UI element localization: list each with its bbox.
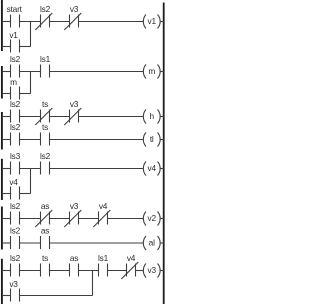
wire rung y=218.5: rail to ls2 bbox=[2, 218, 11, 220]
wire branch v3: contact to connector bbox=[20, 295, 93, 297]
coil v2 bbox=[143, 212, 160, 226]
contact ts (NO) bbox=[41, 253, 50, 277]
branch connector v3 joins rung bbox=[92, 271, 94, 296]
svg-text:ls2: ls2 bbox=[10, 253, 21, 263]
wire rung y=270.5: ls1 to v4 bbox=[108, 270, 127, 272]
svg-text:v4: v4 bbox=[127, 253, 136, 263]
wire rung y=218.5: ls2 to as bbox=[20, 218, 41, 220]
svg-text:v3: v3 bbox=[70, 201, 79, 211]
svg-text:ts: ts bbox=[42, 99, 48, 109]
contact ts (NO) bbox=[41, 122, 50, 146]
wire rung y=218.5: coil to right rail bbox=[160, 218, 164, 220]
wire rung y=21.5: start to ls2 bbox=[20, 21, 41, 23]
contact ls2 (NO) bbox=[10, 99, 21, 123]
contact ls3 (NO) bbox=[10, 151, 21, 175]
wire rung y=168.5: ls2 to coil bbox=[50, 168, 144, 170]
svg-text:v4: v4 bbox=[148, 163, 157, 173]
contact as (NC) bbox=[35, 201, 52, 227]
coil m bbox=[143, 65, 160, 79]
svg-text:m: m bbox=[10, 77, 17, 87]
svg-text:v2: v2 bbox=[148, 213, 157, 223]
wire branch v1: contact to connector bbox=[20, 46, 31, 48]
wire rung y=139.5: ts to coil bbox=[50, 139, 144, 141]
svg-text:v1: v1 bbox=[148, 16, 157, 26]
contact ls2 (NO) bbox=[10, 225, 21, 249]
contact ls2 (NO) bbox=[10, 122, 21, 146]
wire branch v1: rail to contact bbox=[2, 46, 11, 48]
contact v4 (NO) bbox=[9, 177, 19, 200]
contact ls2 (NC) bbox=[35, 4, 52, 30]
contact v4 (NC) bbox=[93, 201, 110, 227]
contact ls2 (NO) bbox=[10, 201, 21, 225]
left power rail segment 6 bbox=[1, 259, 3, 304]
wire rung y=243.0: rail to ls2 bbox=[2, 242, 11, 244]
left power rail segment 1 bbox=[1, 0, 3, 51]
wire rung y=243.0: as to coil bbox=[50, 242, 144, 244]
contact ls2 (NO) bbox=[10, 54, 21, 78]
wire rung y=21.5: coil to right rail bbox=[160, 21, 164, 23]
wire rung y=270.5: ls2 to ts bbox=[20, 270, 41, 272]
svg-text:v1: v1 bbox=[9, 30, 18, 40]
svg-text:ls2: ls2 bbox=[10, 201, 21, 211]
svg-text:ls2: ls2 bbox=[10, 122, 21, 132]
wire rung y=139.5: coil to right rail bbox=[160, 139, 164, 141]
contact v4 (NC) bbox=[121, 253, 138, 279]
wire rung y=270.5: v4 to coil bbox=[136, 270, 144, 272]
wire rung y=21.5: rail to start bbox=[2, 21, 11, 23]
svg-text:v3: v3 bbox=[9, 279, 18, 289]
svg-text:start: start bbox=[7, 4, 23, 14]
contact start (NO) bbox=[7, 4, 23, 28]
coil h bbox=[143, 110, 160, 124]
wire rung y=116.5: ts to v3 bbox=[50, 116, 70, 118]
wire rung y=218.5: v3 to v4 bbox=[79, 218, 99, 220]
svg-text:ts: ts bbox=[42, 253, 48, 263]
left power rail segment 2 bbox=[1, 66, 3, 99]
contact ls1 (NO) bbox=[40, 54, 51, 78]
contact v1 (NO) bbox=[9, 30, 19, 53]
contact ls2 (NO) bbox=[10, 253, 21, 277]
right power rail bbox=[163, 3, 165, 304]
svg-text:v3: v3 bbox=[148, 265, 157, 275]
svg-text:as: as bbox=[41, 225, 49, 235]
wire rung y=71.5: ls1 to coil bbox=[50, 71, 144, 73]
branch connector v1 joins rung bbox=[30, 22, 32, 47]
contact ls2 (NO) bbox=[40, 151, 51, 175]
wire rung y=116.5: ls2 to ts bbox=[20, 116, 41, 118]
left power rail segment 4 bbox=[1, 159, 3, 200]
wire rung y=116.5: rail to ls2 bbox=[2, 116, 11, 118]
left power rail segment 5 bbox=[1, 207, 3, 250]
svg-text:ls1: ls1 bbox=[98, 253, 109, 263]
branch connector v4 joins rung bbox=[30, 169, 32, 194]
svg-text:ls2: ls2 bbox=[10, 99, 21, 109]
svg-text:m: m bbox=[148, 66, 155, 76]
wire rung y=71.5: ls2 to ls1 bbox=[20, 71, 41, 73]
coil tl bbox=[143, 133, 160, 147]
svg-text:ls2: ls2 bbox=[40, 151, 51, 161]
wire rung y=168.5: coil to right rail bbox=[160, 168, 164, 170]
svg-text:ls2: ls2 bbox=[10, 225, 21, 235]
wire rung y=270.5: ts to as bbox=[50, 270, 70, 272]
wire branch v4: contact to connector bbox=[20, 193, 31, 195]
wire rung y=218.5: v4 to coil bbox=[108, 218, 144, 220]
svg-text:v3: v3 bbox=[70, 99, 79, 109]
wire rung y=270.5: rail to ls2 bbox=[2, 270, 11, 272]
wire rung y=243.0: coil to right rail bbox=[160, 242, 164, 244]
svg-text:as: as bbox=[70, 253, 78, 263]
contact as (NO) bbox=[41, 225, 50, 249]
contact as (NO) bbox=[70, 253, 79, 277]
coil al bbox=[143, 236, 160, 250]
contact v3 (NO) bbox=[9, 279, 19, 302]
wire rung y=270.5: as to ls1 bbox=[79, 270, 99, 272]
contact v3 (NC) bbox=[64, 4, 81, 30]
wire rung y=168.5: ls3 to ls2 bbox=[20, 168, 41, 170]
wire rung y=116.5: coil to right rail bbox=[160, 116, 164, 118]
contact ts (NC) bbox=[35, 99, 52, 125]
wire rung y=168.5: rail to ls3 bbox=[2, 168, 11, 170]
coil v4 bbox=[143, 162, 160, 176]
coil v3 bbox=[143, 264, 160, 278]
wire rung y=218.5: as to v3 bbox=[50, 218, 70, 220]
left power rail segment 3 bbox=[1, 112, 3, 150]
branch connector m joins rung bbox=[30, 72, 32, 94]
contact v3 (NC) bbox=[64, 99, 81, 125]
wire branch m: contact to connector bbox=[20, 93, 31, 95]
contact m (NO) bbox=[10, 77, 19, 100]
svg-text:as: as bbox=[41, 201, 49, 211]
wire rung y=71.5: coil to right rail bbox=[160, 71, 164, 73]
svg-text:v4: v4 bbox=[9, 177, 18, 187]
svg-text:al: al bbox=[149, 238, 155, 248]
wire rung y=21.5: ls2 to v3 bbox=[50, 21, 70, 23]
wire rung y=116.5: v3 to coil bbox=[79, 116, 144, 118]
svg-text:v3: v3 bbox=[70, 4, 79, 14]
wire branch v4: rail to contact bbox=[2, 193, 11, 195]
svg-text:ls2: ls2 bbox=[40, 4, 51, 14]
svg-text:ts: ts bbox=[42, 122, 48, 132]
svg-text:v4: v4 bbox=[99, 201, 108, 211]
svg-text:ls3: ls3 bbox=[10, 151, 21, 161]
coil v1 bbox=[143, 15, 160, 29]
wire branch m: rail to contact bbox=[2, 93, 11, 95]
svg-text:tl: tl bbox=[150, 134, 154, 144]
wire branch v3: rail to contact bbox=[2, 295, 11, 297]
contact ls1 (NO) bbox=[98, 253, 109, 277]
wire rung y=270.5: coil to right rail bbox=[160, 270, 164, 272]
wire rung y=139.5: ls2 to ts bbox=[20, 139, 41, 141]
svg-text:ls1: ls1 bbox=[40, 54, 51, 64]
contact v3 (NC) bbox=[64, 201, 81, 227]
wire rung y=139.5: rail to ls2 bbox=[2, 139, 11, 141]
wire rung y=243.0: ls2 to as bbox=[20, 242, 41, 244]
svg-text:h: h bbox=[149, 111, 154, 121]
svg-text:ls2: ls2 bbox=[10, 54, 21, 64]
wire rung y=21.5: v3 to coil bbox=[79, 21, 144, 23]
wire rung y=71.5: rail to ls2 bbox=[2, 71, 11, 73]
